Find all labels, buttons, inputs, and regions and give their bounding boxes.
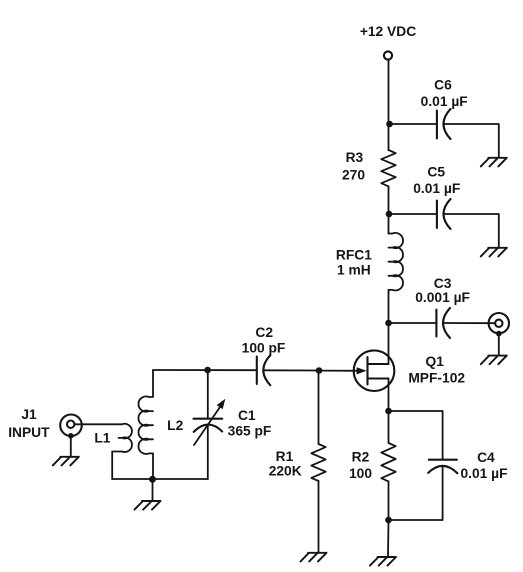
node: tank ground junction xyxy=(149,476,156,483)
label R2 100 xyxy=(349,449,372,481)
wire: R2 bottom to rail xyxy=(388,481,390,520)
wire: R1 top lead xyxy=(318,371,320,445)
label C3 0.001 uF xyxy=(415,276,470,305)
svg-text:0.01 µF: 0.01 µF xyxy=(413,181,460,196)
wire: source node to C4 xyxy=(389,411,443,459)
label RFC1 1 mH xyxy=(336,247,372,277)
resistor R1 xyxy=(311,444,325,481)
capacitor C6 xyxy=(437,109,451,139)
wire: bottom junction to ground xyxy=(387,520,390,557)
wire: junction to C5 xyxy=(389,213,437,215)
svg-text:+12 VDC: +12 VDC xyxy=(360,24,416,39)
svg-text:INPUT: INPUT xyxy=(8,425,50,440)
wire: R3 to RFC1 xyxy=(388,186,390,233)
svg-text:RFC1: RFC1 xyxy=(336,247,372,262)
ground (output jack) xyxy=(481,356,507,365)
label R1 220K xyxy=(269,449,302,479)
wire: jack sleeve to ground xyxy=(498,334,500,355)
resistor R2 xyxy=(381,443,395,481)
capacitor C2 xyxy=(257,355,271,385)
node: C5 junction xyxy=(386,211,393,218)
wire: gate rail left (L2 to C2) xyxy=(153,369,257,371)
label C4 0.01 uF xyxy=(460,450,507,481)
svg-text:R2: R2 xyxy=(352,449,370,464)
label R3 270 xyxy=(342,150,365,182)
svg-text:0.01 µF: 0.01 µF xyxy=(460,466,507,481)
node: bottom rail junction xyxy=(385,517,392,524)
capacitor C4 xyxy=(428,460,457,474)
wire: C1 bottom lead xyxy=(207,425,209,479)
wire: bottom rail R2 to C4 xyxy=(389,519,443,521)
wire: Q1 source to node xyxy=(388,379,390,412)
variable capacitor C1 xyxy=(194,399,226,445)
svg-text:220K: 220K xyxy=(269,464,302,479)
ground (R1) xyxy=(301,553,327,562)
wire: tank junction to ground xyxy=(152,479,154,501)
label C5 0.01 uF xyxy=(413,164,460,196)
node: C3 junction xyxy=(385,320,392,327)
wire: C3 to output jack xyxy=(443,322,495,324)
wire: R1 bottom to ground xyxy=(318,481,320,552)
label J1 INPUT xyxy=(8,407,50,440)
ground (C6) xyxy=(481,158,507,167)
svg-text:0.01 µF: 0.01 µF xyxy=(421,94,468,109)
svg-text:L2: L2 xyxy=(167,418,183,433)
svg-text:C1: C1 xyxy=(238,408,256,423)
wire: RFC1 to Q1 drain xyxy=(388,290,390,364)
inductor L1 xyxy=(112,424,132,479)
svg-text:C3: C3 xyxy=(434,276,452,291)
wire: C1 top lead xyxy=(207,370,209,419)
wire: J1 tip to L1 xyxy=(74,423,122,425)
label C1 365 pF xyxy=(228,408,272,439)
ground (C5) xyxy=(481,248,507,257)
resistor R3 xyxy=(381,150,395,186)
svg-text:C2: C2 xyxy=(255,325,273,340)
ground (tank) xyxy=(135,501,161,510)
label C2 100 pF xyxy=(242,325,286,356)
label Q1 MPF-102 xyxy=(408,354,465,385)
ground (J1) xyxy=(53,457,79,466)
ground (source network) xyxy=(370,557,396,566)
inductor RFC1 xyxy=(389,233,404,291)
svg-text:100: 100 xyxy=(349,466,372,481)
svg-text:R3: R3 xyxy=(346,150,364,165)
wire: gate rail right (C2 to Q1 gate) xyxy=(264,369,323,371)
wire: C4 bottom to rail xyxy=(442,466,444,520)
node: C1 junction xyxy=(204,367,211,374)
transistor Q1 xyxy=(322,350,394,391)
wire: junction to C3 xyxy=(389,322,437,324)
node: source junction xyxy=(385,408,392,415)
capacitor C3 xyxy=(436,308,450,338)
svg-text:J1: J1 xyxy=(21,407,37,422)
svg-text:R1: R1 xyxy=(276,449,294,464)
svg-text:Q1: Q1 xyxy=(425,354,444,369)
svg-text:C6: C6 xyxy=(434,78,452,93)
node: J1 sleeve xyxy=(68,433,74,439)
svg-text:100 pF: 100 pF xyxy=(242,341,286,356)
capacitor C5 xyxy=(437,199,451,229)
node: output jack sleeve xyxy=(496,331,502,337)
wire: junction to C6 xyxy=(390,123,437,125)
svg-text:MPF-102: MPF-102 xyxy=(408,371,465,386)
svg-text:1 mH: 1 mH xyxy=(337,263,371,278)
svg-text:C5: C5 xyxy=(427,164,445,179)
wire: tank bottom rail xyxy=(112,478,208,480)
wire: source node to R2 xyxy=(388,411,390,443)
svg-text:C4: C4 xyxy=(477,450,495,465)
connector J1 input jack xyxy=(60,415,82,437)
label C6 0.01 uF xyxy=(421,78,468,109)
svg-text:0.001 µF: 0.001 µF xyxy=(415,290,470,305)
node: V+ / C6 junction xyxy=(386,121,393,128)
wire: C5 to ground xyxy=(444,214,499,247)
power terminal +12 VDC xyxy=(384,51,392,59)
wire: +12 terminal down to R3 xyxy=(388,60,390,150)
wire: J1 sleeve to ground xyxy=(70,436,72,456)
connector output jack xyxy=(489,313,509,333)
node: R1 junction xyxy=(316,367,323,374)
svg-text:270: 270 xyxy=(342,167,365,182)
svg-text:L1: L1 xyxy=(94,430,110,445)
svg-text:365 pF: 365 pF xyxy=(228,424,272,439)
wire: C6 to ground xyxy=(444,124,499,157)
inductor L2 xyxy=(138,370,153,479)
